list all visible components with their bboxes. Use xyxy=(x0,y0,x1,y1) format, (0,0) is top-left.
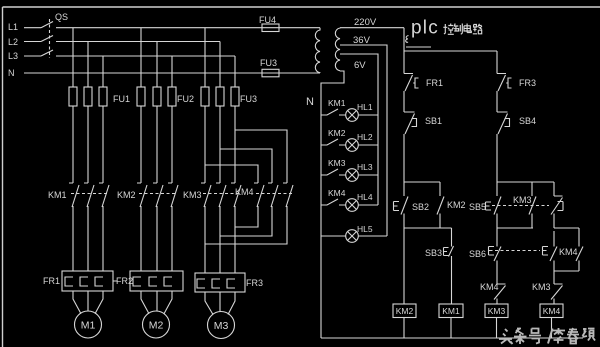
linkage SB5 xyxy=(492,205,549,207)
label control-circuit char lu xyxy=(473,24,482,34)
wire SB2 KM2 join xyxy=(404,214,452,229)
wire L3 bus xyxy=(56,55,235,57)
lamp HL3 xyxy=(346,169,359,182)
svg-text:FR3: FR3 xyxy=(519,78,536,88)
svg-text:HL3: HL3 xyxy=(357,162,373,172)
pushbutton SB5 xyxy=(486,182,502,215)
pushbutton SB2 xyxy=(394,182,409,215)
coil KM3 xyxy=(485,304,508,318)
transformer T primary xyxy=(315,28,320,73)
svg-text:KM4: KM4 xyxy=(559,247,578,257)
svg-text:L1: L1 xyxy=(8,22,18,32)
pushbutton SB1 xyxy=(404,112,417,134)
svg-text:220V: 220V xyxy=(354,17,377,28)
fuse FU1 a xyxy=(69,87,77,106)
wire KM4 feed b xyxy=(220,149,272,183)
wire FR3 to M3 xyxy=(205,292,235,315)
wire KM4 feed c xyxy=(235,130,287,183)
wire group1 col1 to KM1 xyxy=(72,106,74,183)
fuse FU2 b xyxy=(153,87,161,106)
border frame left xyxy=(2,7,4,347)
svg-text:FR3: FR3 xyxy=(246,278,263,288)
wire KM4 out wrap b xyxy=(220,206,272,236)
contactor KM1 pole1 xyxy=(69,183,79,207)
wire FR1 to SB1 xyxy=(403,91,405,112)
watermark toutiao xyxy=(499,328,595,344)
fuse FU2 a xyxy=(137,87,145,106)
wire FR1 to M1 xyxy=(73,291,103,314)
contactor KM4 linkage xyxy=(256,193,292,195)
wire drop L3 group1 xyxy=(102,56,104,87)
wire HL2 out xyxy=(358,144,378,146)
label control-circuit char dian xyxy=(464,24,471,33)
switch QS pole 2 blade xyxy=(41,36,53,42)
wire SB6 down xyxy=(496,261,498,285)
wire parallel box top xyxy=(554,227,579,229)
switch QS pole 3 blade xyxy=(41,50,53,56)
svg-text:N: N xyxy=(306,96,314,108)
svg-text:M3: M3 xyxy=(214,320,229,332)
wire group1 col3 to KM1 xyxy=(102,106,104,183)
contactor KM2 pole3 xyxy=(168,183,178,207)
fuse FU3 c xyxy=(231,87,239,106)
thermal contact FR3 xyxy=(497,74,512,92)
svg-text:KM4: KM4 xyxy=(480,282,499,292)
svg-text:L3: L3 xyxy=(8,51,18,61)
svg-text:plc: plc xyxy=(411,18,439,39)
svg-text:KM2: KM2 xyxy=(328,128,346,138)
coil KM1 xyxy=(439,304,463,318)
pushbutton SB4 xyxy=(497,112,510,134)
coil KM2 xyxy=(393,304,416,318)
wire N bus xyxy=(24,72,320,74)
wire SB4 down xyxy=(496,134,498,182)
switch QS linkage xyxy=(49,19,51,58)
thermal contact FR1 xyxy=(404,74,419,92)
wire drop L3 group2 xyxy=(171,56,173,87)
thermal relay FR3 heaters xyxy=(197,279,235,288)
fuse FU1 b xyxy=(84,87,92,106)
wire SB1 down xyxy=(403,134,405,182)
wire SB2 rung down to coil xyxy=(403,228,405,304)
thermal relay FR3 box xyxy=(195,273,245,292)
wire drop L1 group1 xyxy=(72,28,74,87)
svg-text:SB4: SB4 xyxy=(519,116,536,126)
wire HL4 out xyxy=(358,204,378,206)
svg-text:HL1: HL1 xyxy=(357,102,373,112)
contactor KM2 linkage xyxy=(139,193,175,195)
svg-text:KM3: KM3 xyxy=(532,282,551,292)
svg-text:KM4: KM4 xyxy=(328,188,346,198)
wire L1 lead-in xyxy=(24,27,41,29)
wire to KM4 coil xyxy=(553,299,555,305)
lamp HL2 xyxy=(346,139,359,152)
fuse FU1 c xyxy=(99,87,107,106)
wire L3 lead-in xyxy=(24,55,41,57)
wire to KM3 coil xyxy=(496,299,498,305)
thermal relay FR2 box xyxy=(130,271,183,291)
svg-text:KM4: KM4 xyxy=(235,187,254,197)
lamp HL1 xyxy=(346,109,359,122)
wire group3 col3 to KM3 xyxy=(234,106,236,183)
svg-text:HL5: HL5 xyxy=(357,224,373,234)
wire SB5NC down to box xyxy=(553,214,555,229)
aux contact KM4 hold xyxy=(576,228,583,271)
svg-text:SB6: SB6 xyxy=(469,249,486,259)
motor M1 xyxy=(75,311,102,338)
wire drop L1 group3 xyxy=(204,28,206,87)
junction squiggle xyxy=(406,36,409,43)
svg-text:6V: 6V xyxy=(354,60,366,71)
wire 220V down to rails xyxy=(404,28,497,51)
svg-text:KM3: KM3 xyxy=(513,195,532,205)
contactor KM1 pole2 xyxy=(84,183,94,207)
svg-text:FR1: FR1 xyxy=(426,78,443,88)
wire secondary bottom to N rail xyxy=(321,71,344,338)
label control-circuit char zhi xyxy=(454,24,463,35)
svg-text:HL4: HL4 xyxy=(357,192,373,202)
svg-text:SB2: SB2 xyxy=(412,202,429,212)
wire SB5 KM3 join xyxy=(497,214,533,229)
coil KM4 xyxy=(540,304,563,318)
svg-text:KM3: KM3 xyxy=(488,306,506,316)
contactor KM4 pole3 xyxy=(283,183,293,207)
thermal relay FR2 heaters xyxy=(133,277,172,286)
wire group2 col3 to KM2 xyxy=(171,106,173,183)
thermal relay FR1 heaters xyxy=(65,277,117,286)
svg-text:KM1: KM1 xyxy=(48,190,67,200)
fuse FU3 b xyxy=(216,87,224,106)
pushbutton SB6 xyxy=(489,247,502,262)
wire drop L2 group1 xyxy=(87,42,89,88)
svg-text:N: N xyxy=(8,68,15,78)
wire drop L2 group3 xyxy=(219,42,221,88)
contactor KM1 linkage xyxy=(71,193,107,195)
wire KM4 out wrap c xyxy=(205,206,287,244)
svg-text:KM1: KM1 xyxy=(442,306,460,316)
wire KM1 out to FR1 xyxy=(73,206,103,271)
svg-text:KM2: KM2 xyxy=(396,306,414,316)
svg-text:QS: QS xyxy=(55,12,68,22)
contactor KM3 pole2 xyxy=(216,183,226,207)
svg-text:FR1: FR1 xyxy=(43,276,60,286)
wire HL5 out xyxy=(358,235,387,237)
wire HL1 out xyxy=(358,114,378,116)
motor M3 xyxy=(208,312,235,339)
contactor KM4 pole2 xyxy=(268,183,278,207)
wire FR3 to SB4 xyxy=(496,91,498,112)
lamp HL4 xyxy=(346,199,359,212)
wire FR2 to M2 xyxy=(141,291,172,314)
contactor KM2 pole1 xyxy=(137,183,147,207)
svg-text:KM3: KM3 xyxy=(328,158,346,168)
wire SB5 rung down xyxy=(496,228,498,247)
pushbutton SB3 xyxy=(444,228,454,257)
fuse FU3 a xyxy=(201,87,209,106)
svg-text:KM1: KM1 xyxy=(328,98,346,108)
fuse FU2 c xyxy=(168,87,176,106)
svg-text:SB3: SB3 xyxy=(425,248,442,258)
wire KM1 coil to rail xyxy=(450,318,452,339)
wire SB3 down to coil xyxy=(451,256,453,304)
wire KM4 feed a xyxy=(205,165,258,183)
interlock contact KM3 NC xyxy=(551,284,563,300)
wire HL3 out xyxy=(358,174,378,176)
label control-circuit char kong xyxy=(443,24,454,35)
wire KM4 coil to rail xyxy=(551,318,553,339)
wire drop L1 group2 xyxy=(140,28,142,87)
lamp HL5 feed xyxy=(321,235,346,237)
wire KM3 out to FR3 xyxy=(205,206,235,273)
contactor KM4 pole1 xyxy=(254,183,264,207)
pushbutton SB6 NC linked contact xyxy=(543,231,558,261)
wire 6V tap xyxy=(340,54,378,205)
svg-text:KM4: KM4 xyxy=(543,306,561,316)
wire right rung split xyxy=(497,181,554,183)
svg-text:HL2: HL2 xyxy=(357,132,373,142)
wire KM2 out to FR2 xyxy=(141,206,172,271)
aux contact KM2 hold xyxy=(437,182,444,228)
svg-text:SB1: SB1 xyxy=(425,116,442,126)
svg-text:KM2: KM2 xyxy=(117,190,136,200)
wire KM2 coil to rail xyxy=(403,318,405,339)
contactor KM2 pole2 xyxy=(153,183,163,207)
wire L2 lead-in xyxy=(24,41,41,43)
switch QS pole 1 blade xyxy=(41,22,53,28)
wire group2 col1 to KM2 xyxy=(140,106,142,183)
wire group3 col1 to KM3 xyxy=(204,106,206,183)
wire FR3 rung top xyxy=(496,51,498,74)
wire group2 col2 to KM2 xyxy=(156,106,158,183)
lamp HL5 xyxy=(346,230,359,243)
svg-text:FU2: FU2 xyxy=(177,94,194,104)
interlock contact KM4 NC xyxy=(494,284,506,300)
wire L1 bus xyxy=(56,27,320,29)
wire KM4 out wrap a xyxy=(235,206,258,227)
svg-text:M1: M1 xyxy=(81,320,96,332)
svg-text:FU3: FU3 xyxy=(260,58,277,68)
wire drop L2 group2 xyxy=(156,42,158,88)
wire down to KM3 interlock xyxy=(553,271,555,284)
motor M2 xyxy=(143,311,170,338)
svg-text:L2: L2 xyxy=(8,37,18,47)
linkage SB6 xyxy=(495,250,540,252)
wire L2 bus xyxy=(56,41,220,43)
wire FR1 rung top xyxy=(403,51,405,74)
wire 36V tap xyxy=(340,45,387,236)
transformer T secondary xyxy=(335,28,340,71)
wire left rung split xyxy=(404,181,440,183)
wire 220V tap xyxy=(340,27,404,29)
fuse FU4 xyxy=(262,24,279,32)
svg-text:36V: 36V xyxy=(353,35,371,46)
svg-text:FU1: FU1 xyxy=(113,94,130,104)
svg-text:KM3: KM3 xyxy=(183,190,202,200)
wire group3 col2 to KM3 xyxy=(219,106,221,183)
svg-text:KM2: KM2 xyxy=(447,200,466,210)
fuse FU3 single xyxy=(262,69,279,77)
pushbutton SB5 NC linked contact xyxy=(551,182,563,215)
contactor KM3 pole3 xyxy=(231,183,241,207)
wire parallel box bottom xyxy=(554,261,579,272)
thermal relay FR1 box xyxy=(62,271,113,291)
contactor KM3 linkage xyxy=(203,193,239,195)
wire bottom rail xyxy=(321,337,583,339)
svg-text:M2: M2 xyxy=(149,320,164,332)
svg-text:FU3: FU3 xyxy=(240,94,257,104)
wire group1 col2 to KM1 xyxy=(87,106,89,183)
aux contact KM3 hold xyxy=(529,182,536,228)
wire KM3 coil to rail xyxy=(496,318,498,339)
border frame top xyxy=(3,6,600,8)
svg-text:SB5: SB5 xyxy=(469,202,486,212)
wire drop L3 group3 xyxy=(234,56,236,87)
contactor KM3 pole1 xyxy=(201,183,211,207)
contactor KM1 pole3 xyxy=(99,183,109,207)
